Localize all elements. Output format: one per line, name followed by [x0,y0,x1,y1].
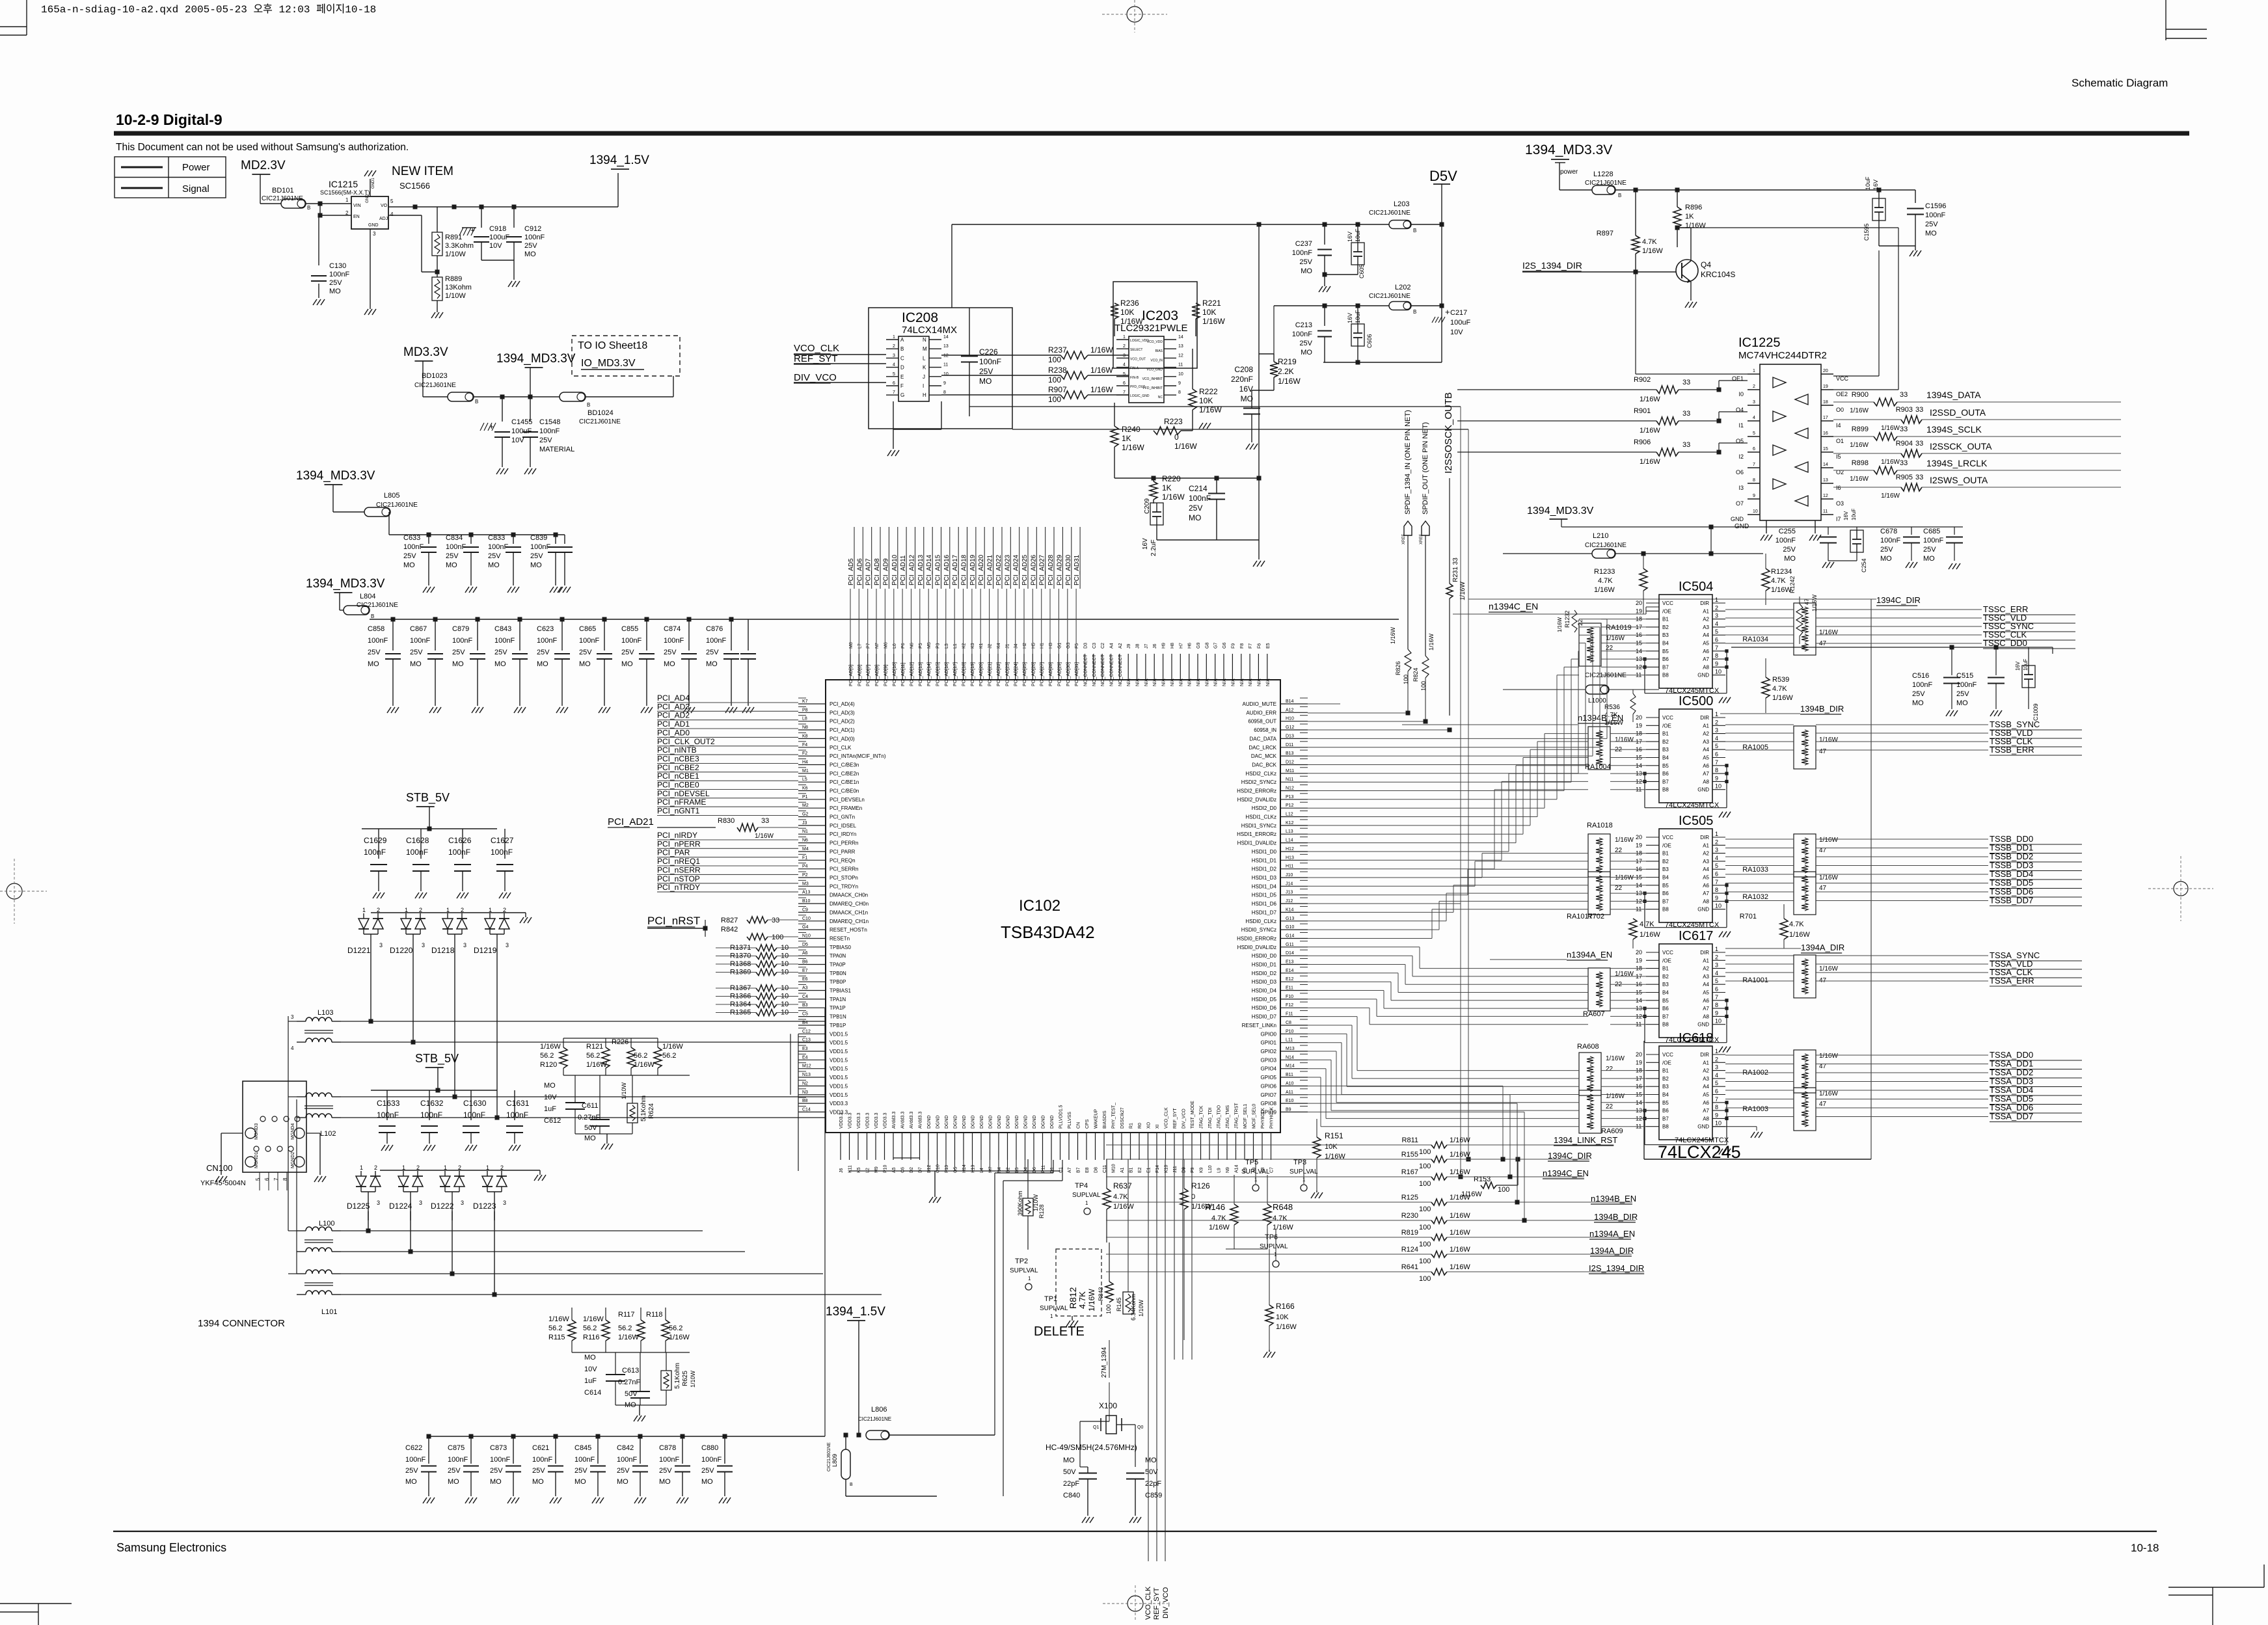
resistor R811 100 / net 1394_LINK_RST [1106,1144,1431,1146]
svg-text:C622: C622 [405,1444,422,1452]
svg-text:A6: A6 [1703,649,1709,654]
svg-text:1/16W: 1/16W [1615,736,1634,744]
svg-text:25V: 25V [579,649,592,656]
net TSSA_DD0 [1725,1054,1794,1056]
svg-text:33: 33 [1900,391,1908,399]
resistor R897 4.7K [1635,190,1636,235]
svg-text:N/A: N/A [1222,678,1227,686]
svg-text:7: 7 [1715,759,1718,766]
svg-text:100: 100 [1419,1224,1431,1231]
svg-text:J3: J3 [802,821,807,826]
svg-text:R625: R625 [682,1371,689,1386]
svg-text:C1630: C1630 [463,1099,487,1108]
svg-text:A14: A14 [1235,1164,1239,1173]
svg-text:C3: C3 [1092,643,1097,649]
svg-text:1/16W: 1/16W [1819,1053,1838,1060]
svg-text:P8: P8 [802,708,808,712]
svg-text:L804: L804 [360,593,375,600]
svg-text:3: 3 [506,942,509,948]
svg-text:11: 11 [1823,509,1828,514]
svg-text:56.2: 56.2 [540,1052,554,1060]
svg-text:1/16W: 1/16W [1087,1289,1096,1311]
svg-text:I6: I6 [1836,485,1841,491]
resistor R896 1K [1677,190,1678,207]
svg-text:CIC21J601NE: CIC21J601NE [357,602,398,609]
svg-text:9: 9 [1178,381,1181,386]
svg-text:2: 2 [1715,1056,1718,1062]
svg-text:TPB1N: TPB1N [830,1014,846,1020]
svg-text:1/16W: 1/16W [540,1043,561,1051]
svg-text:M5: M5 [927,642,932,649]
svg-text:K: K [923,365,926,371]
svg-text:N/A: N/A [1249,678,1253,686]
svg-text:2: 2 [1715,839,1718,845]
svg-text:PCI_C/BE3n: PCI_C/BE3n [830,762,859,768]
svg-text:NC: NC [1158,396,1163,399]
Q4 collector wire to rail [1690,228,1692,261]
resistor array RA1005 [1794,726,1816,769]
svg-text:DGND: DGND [1006,1115,1011,1129]
registration target bottom-center [1127,1596,1143,1611]
svg-text:G10: G10 [1286,925,1294,930]
svg-text:C623: C623 [537,625,554,633]
svg-text:A8: A8 [1703,1014,1709,1019]
svg-text:2: 2 [377,907,380,913]
svg-text:C: C [900,355,904,361]
svg-text:25V: 25V [1783,546,1796,554]
svg-text:1394A_DIR: 1394A_DIR [1801,943,1844,952]
svg-text:R811: R811 [1402,1136,1418,1144]
svg-text:R900: R900 [1852,391,1869,399]
svg-text:B1: B1 [1662,966,1669,972]
capacitor C1631 100nF [514,1090,515,1120]
svg-text:1/16W: 1/16W [1450,1151,1470,1159]
svg-text:IC618: IC618 [1679,1031,1713,1045]
diode pair D1223 [487,1171,488,1176]
svg-text:R904: R904 [1896,440,1913,448]
svg-text:100nF: 100nF [1956,681,1977,689]
svg-text:100nF: 100nF [1925,211,1945,219]
capacitor C1595 10uF [1872,198,1885,221]
svg-text:PHY8CLK: PHY8CLK [1261,1108,1265,1129]
svg-text:VDD1.5: VDD1.5 [830,1075,848,1081]
svg-text:TSSC_DD0: TSSC_DD0 [1983,638,2027,648]
svg-text:PHY_TEST_: PHY_TEST_ [1112,1103,1116,1129]
svg-text:PCI_AD30: PCI_AD30 [1065,554,1072,585]
capacitor C867 100nF [435,619,436,651]
resistor R151 10K [1313,1137,1321,1158]
svg-text:MO: MO [524,250,536,258]
svg-text:PCI_IDSEL: PCI_IDSEL [830,823,856,829]
svg-text:K13: K13 [971,1164,976,1173]
IC618 GND wire [1712,1126,1757,1127]
svg-text:K14: K14 [1286,907,1294,912]
svg-text:IC504: IC504 [1679,580,1713,594]
IC618 outer box [1644,1159,1871,1160]
svg-text:J10: J10 [1286,873,1293,878]
svg-text:100nF: 100nF [494,637,515,645]
capacitor C1632 100nF [429,1090,430,1120]
svg-text:N/A: N/A [1162,678,1167,686]
R group rail [563,1075,690,1076]
svg-text:TSB43DA42: TSB43DA42 [1001,922,1095,942]
svg-text:MO: MO [584,1354,596,1362]
svg-text:PCI_AD[8]: PCI_AD[8] [875,665,880,686]
svg-text:TPB1P: TPB1P [830,1023,846,1028]
svg-text:RESET_LINKn: RESET_LINKn [1242,1023,1276,1028]
IC1225 VCC wire [1878,250,1880,376]
svg-text:1uF: 1uF [584,1377,597,1385]
wire L809 to right [846,1496,937,1497]
svg-text:R624: R624 [648,1103,655,1119]
svg-text:100: 100 [1419,1275,1431,1283]
svg-text:5: 5 [1715,1080,1718,1086]
svg-text:R231 33: R231 33 [1452,557,1459,582]
svg-text:100nF: 100nF [368,637,388,645]
resistor R124 100 / net 1394A_DIR [1106,1254,1431,1255]
capacitor C833 100nF [513,535,514,544]
svg-text:VDD1.5: VDD1.5 [830,1066,848,1072]
svg-text:L14: L14 [1286,839,1293,843]
svg-text:PCI_AD16: PCI_AD16 [943,554,951,585]
svg-text:A4: A4 [1703,982,1709,987]
svg-text:RESETn: RESETn [830,936,850,942]
svg-text:E1: E1 [1147,1167,1152,1173]
svg-text:B3: B3 [1662,866,1669,872]
svg-text:C1628: C1628 [406,836,429,845]
svg-text:50V: 50V [1063,1468,1076,1476]
svg-text:NO_CONNECT: NO_CONNECT [1084,654,1088,686]
svg-text:1/16W: 1/16W [1615,874,1634,881]
svg-text:AUDIO_ERR: AUDIO_ERR [1246,710,1276,716]
svg-text:MGND1: MGND1 [254,1152,259,1168]
net TSSB_VLD [1725,732,1794,734]
svg-text:DGND: DGND [1033,1115,1037,1129]
svg-text:N1: N1 [802,829,808,834]
svg-text:BD101: BD101 [272,187,294,195]
svg-text:DMAACK_CH0n: DMAACK_CH0n [830,893,868,898]
svg-text:VCC: VCC [1662,600,1673,606]
capacitor C621 100nF [555,1436,556,1464]
svg-text:R121: R121 [586,1043,603,1051]
svg-text:TPA0P: TPA0P [830,962,846,968]
svg-text:PCI_C/BE0n: PCI_C/BE0n [830,788,859,794]
svg-text:1: 1 [893,335,895,340]
svg-text:165a-n-sdiag-10-a2.qxd 2005-0: 165a-n-sdiag-10-a2.qxd 2005-05-23 오후 12:… [41,3,376,16]
resistor R898 / net 1394S_LRCLK [1833,470,1874,471]
svg-text:F7: F7 [1249,643,1253,649]
svg-text:3: 3 [379,942,383,948]
svg-text:SELECT: SELECT [1130,348,1142,352]
svg-text:100nF: 100nF [420,1110,442,1120]
svg-text:B3: B3 [1662,982,1669,987]
svg-text:B11: B11 [1286,1073,1293,1077]
resistor R1234 4.7K [1765,554,1766,569]
svg-text:M13: M13 [1286,1047,1295,1051]
IC500 unused pin ties and ground [1644,773,1645,790]
svg-text:B: B [371,613,374,619]
svg-text:3: 3 [1715,613,1718,619]
svg-text:1394B_DIR: 1394B_DIR [1800,704,1844,714]
bus net PCI_AD30 [1067,589,1068,654]
svg-text:B1: B1 [1662,1068,1669,1074]
svg-text:L203: L203 [1394,200,1409,208]
svg-text:B3: B3 [1662,632,1669,638]
svg-text:16V: 16V [1239,384,1253,394]
bead L809 vertical [841,1449,850,1479]
svg-text:N14: N14 [1286,1055,1294,1060]
svg-text:REF_SYT: REF_SYT [1173,1108,1178,1129]
svg-text:100nF: 100nF [979,357,1001,366]
svg-text:N6: N6 [802,839,808,843]
capacitor C1455 100uF [502,397,503,422]
svg-text:DGND: DGND [1050,1115,1055,1129]
svg-text:56.2: 56.2 [634,1052,647,1060]
svg-text:C833: C833 [488,534,505,542]
svg-text:A5: A5 [1703,641,1709,647]
svg-text:1/16W: 1/16W [1850,442,1869,449]
svg-text:RA1018: RA1018 [1587,822,1613,829]
IC500 B wires [1610,733,1646,734]
svg-text:A1: A1 [1703,723,1709,729]
IC1225 MC74VHC244 box [1760,364,1821,520]
svg-text:100nF: 100nF [1775,537,1796,544]
capacitor C685 [1954,527,1955,535]
svg-text:L103: L103 [317,1009,333,1017]
svg-text:PCI_AD1: PCI_AD1 [657,719,690,729]
resistor R903 / net I2SSD_OUTA [1833,419,1874,420]
svg-text:9: 9 [1715,660,1718,667]
svg-text:MO: MO [701,1478,713,1486]
svg-text:SUPLVAL: SUPLVAL [1010,1267,1038,1274]
svg-text:100nF: 100nF [491,848,513,857]
svg-text:R702: R702 [1587,913,1604,920]
svg-text:R701: R701 [1740,913,1757,920]
svg-text:F6: F6 [1257,643,1262,649]
svg-text:100: 100 [1419,1205,1431,1213]
svg-text:100nF: 100nF [532,1456,552,1464]
svg-text:MO: MO [1923,555,1935,563]
svg-text:25V: 25V [488,552,501,560]
svg-text:R166: R166 [1276,1302,1295,1311]
svg-text:16: 16 [1823,431,1828,436]
svg-text:DGND: DGND [936,1115,941,1129]
svg-text:4.7K: 4.7K [1640,920,1654,928]
svg-text:R117: R117 [618,1311,634,1319]
svg-text:CIC21J601NE: CIC21J601NE [1585,542,1627,549]
svg-text:PCI_nREQ1: PCI_nREQ1 [657,857,700,866]
svg-text:TP1: TP1 [1044,1295,1057,1303]
svg-text:A7: A7 [1703,656,1709,662]
svg-text:B3: B3 [1662,1084,1669,1090]
svg-text:B13: B13 [1286,751,1294,756]
svg-text:IC500: IC500 [1679,694,1713,708]
VO rail to 1394_1.5V [388,206,618,208]
svg-text:L806: L806 [871,1406,887,1414]
svg-text:33: 33 [1900,425,1908,433]
svg-text:100nF: 100nF [1912,681,1932,689]
IC203 outer box [1113,282,1197,368]
svg-text:C865: C865 [579,625,596,633]
svg-text:19: 19 [1636,608,1642,614]
svg-text:PCI_AD12: PCI_AD12 [909,554,916,585]
svg-text:HC-49/SM5H(24.576MHz): HC-49/SM5H(24.576MHz) [1046,1443,1137,1452]
capacitor C1633 100nF [386,1090,388,1120]
svg-text:25V: 25V [574,1467,587,1475]
svg-text:PCI_AD[6]: PCI_AD[6] [857,665,862,686]
svg-text:B14: B14 [1286,699,1294,704]
svg-text:5: 5 [1753,431,1755,436]
svg-text:1/16W: 1/16W [1640,458,1660,466]
svg-text:DGND: DGND [954,1115,958,1129]
svg-text:DGND: DGND [980,1115,984,1129]
svg-text:C7: C7 [1270,1167,1275,1173]
svg-text:100nF: 100nF [574,1456,595,1464]
bus net PCI_AD10 [893,589,895,654]
svg-text:1: 1 [402,1164,405,1171]
svg-text:J7: J7 [1144,644,1149,649]
svg-text:L4: L4 [980,1168,984,1173]
svg-text:100nF: 100nF [621,637,641,645]
svg-text:PCI_PARR: PCI_PARR [830,849,856,855]
svg-text:1/16W: 1/16W [1090,366,1113,375]
svg-text:4.7K: 4.7K [1113,1193,1128,1201]
svg-text:F11: F11 [1286,1012,1293,1017]
svg-text:R153: R153 [1474,1175,1491,1183]
svg-text:DAC_LRCK: DAC_LRCK [1249,745,1276,751]
svg-text:C6: C6 [901,1167,906,1173]
svg-text:PCI_CLK_OUT2: PCI_CLK_OUT2 [657,737,715,746]
svg-text:B4: B4 [1662,1092,1669,1098]
svg-text:JTAG_TMS: JTAG_TMS [1226,1105,1230,1129]
svg-text:BD1024: BD1024 [587,409,614,417]
svg-text:25V: 25V [539,436,552,444]
svg-text:B: B [1413,228,1416,234]
svg-text:VCC: VCC [1662,835,1673,840]
svg-text:A4: A4 [1703,747,1709,753]
svg-text:n1394C_EN: n1394C_EN [1543,1168,1589,1178]
svg-text:PCI_AD21: PCI_AD21 [987,554,994,585]
svg-text:K9: K9 [1200,1167,1204,1173]
resistor R220 1K [1153,478,1154,481]
svg-text:HSDI0_CLKz: HSDI0_CLKz [1245,919,1276,924]
IC618 B wires [1601,1070,1646,1071]
svg-text:100: 100 [772,933,783,941]
svg-text:1/16W: 1/16W [1174,442,1197,451]
svg-text:3.3Kohm: 3.3Kohm [445,242,474,250]
svg-text:MO: MO [446,561,457,569]
svg-text:J13: J13 [1286,891,1293,895]
diode pair D1224 [403,1171,404,1176]
svg-text:D6: D6 [1033,1167,1037,1173]
svg-text:3: 3 [1753,400,1755,405]
svg-text:VDD3.3: VDD3.3 [884,1112,888,1129]
svg-text:C208: C208 [1234,365,1253,374]
resistor R155 100 / net 1394C_DIR [1106,1159,1431,1160]
svg-text:50V: 50V [584,1124,597,1132]
svg-text:C8: C8 [1286,1021,1291,1025]
svg-text:C878: C878 [659,1444,676,1452]
svg-text:1K: 1K [1122,434,1131,443]
capacitor C213 [1324,306,1325,326]
svg-text:IO_MD3.3V: IO_MD3.3V [581,358,636,369]
svg-text:100uF: 100uF [1450,319,1470,327]
svg-text:2: 2 [1715,954,1718,960]
svg-text:1/16W: 1/16W [548,1315,569,1323]
svg-text:GPIO6: GPIO6 [1261,1083,1277,1089]
svg-text:A5: A5 [1703,1092,1709,1098]
svg-text:TP4: TP4 [1075,1182,1088,1190]
resistor R230 100 / net 1394B_DIR [1106,1220,1431,1221]
svg-text:MO: MO [1063,1457,1075,1464]
svg-text:1/16W: 1/16W [1450,1168,1470,1176]
resistor R237 [941,355,1060,356]
svg-text:CIC21J601NE: CIC21J601NE [414,382,456,389]
svg-text:SPDIF_1394_IN (ONE PIN NET): SPDIF_1394_IN (ONE PIN NET) [1404,410,1412,515]
svg-text:1394B_DIR: 1394B_DIR [1594,1212,1638,1222]
svg-text:A4: A4 [1703,866,1709,872]
svg-text:D2: D2 [910,1167,914,1173]
svg-text:PCI_AD[27]: PCI_AD[27] [1040,662,1045,686]
svg-text:VDD3.3: VDD3.3 [848,1112,853,1129]
svg-text:PCI_AD4: PCI_AD4 [657,693,690,703]
svg-text:MO: MO [403,561,415,569]
svg-text:XI: XI [1155,1124,1160,1129]
svg-text:HSDI1_D3: HSDI1_D3 [1252,875,1277,881]
svg-text:Q4: Q4 [1701,260,1711,269]
svg-text:6.34Kohm: 6.34Kohm [1130,1294,1137,1321]
svg-text:G13: G13 [1286,917,1294,921]
svg-text:I0: I0 [1738,391,1744,397]
svg-text:8: 8 [1715,767,1718,773]
svg-text:12: 12 [943,353,949,358]
svg-text:D1219: D1219 [474,946,497,955]
svg-text:A5: A5 [1703,990,1709,996]
svg-text:7: 7 [1123,390,1126,395]
svg-text:GND: GND [1697,673,1709,678]
svg-text:C840: C840 [1063,1492,1080,1499]
svg-text:A1: A1 [1703,1060,1709,1066]
capacitor C254 10uF [1850,530,1863,552]
svg-text:33: 33 [1682,441,1690,449]
svg-text:4.7K: 4.7K [1211,1215,1226,1222]
svg-text:B1: B1 [1662,617,1669,623]
svg-text:16V: 16V [1142,538,1149,550]
svg-text:5: 5 [893,372,895,377]
net TSSB_CLK [1725,741,1794,742]
svg-text:C1548: C1548 [539,418,560,426]
svg-text:10: 10 [1715,783,1721,790]
capacitor C1626 100nF [462,829,463,859]
svg-text:GND: GND [1697,1124,1709,1130]
svg-text:F14: F14 [1155,1165,1160,1173]
svg-text:CIC21J601NE: CIC21J601NE [1585,672,1627,679]
resistor array RA1002 [1794,1050,1816,1093]
VDD bus verticals [798,1034,799,1112]
svg-text:4: 4 [893,363,895,368]
svg-text:B3: B3 [802,1003,808,1008]
svg-text:I2SSCK_OUTA: I2SSCK_OUTA [1930,441,1992,451]
svg-text:100nF: 100nF [1189,494,1211,503]
svg-text:B: B [475,399,478,405]
svg-text:JTAG_TRST: JTAG_TRST [1235,1103,1239,1129]
svg-text:22: 22 [1615,885,1623,892]
svg-text:1/16W: 1/16W [1789,931,1810,939]
svg-text:25V: 25V [403,552,416,560]
svg-text:9: 9 [1715,1112,1718,1118]
svg-text:DGND: DGND [927,1115,932,1129]
capacitor C226 [969,308,970,355]
